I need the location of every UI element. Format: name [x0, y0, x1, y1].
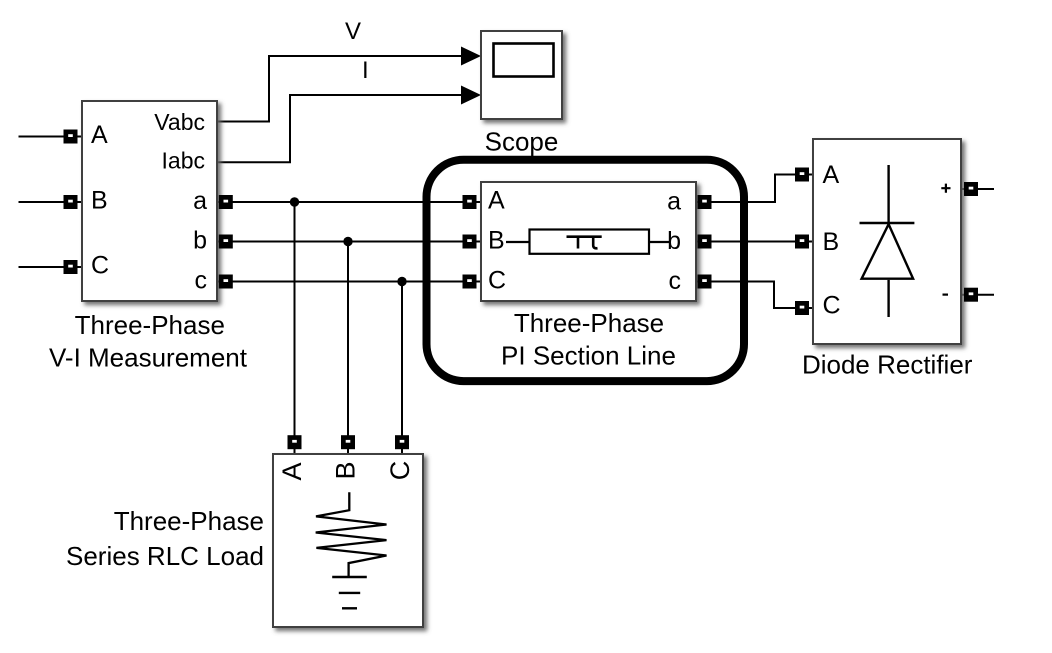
ground bar 2	[339, 592, 360, 594]
port square PI in C	[463, 275, 477, 289]
scope screen	[494, 44, 554, 77]
port square input A	[64, 130, 78, 144]
port square rectifier in A	[795, 168, 809, 182]
svg-text:Vabc: Vabc	[154, 109, 205, 135]
port square RLC top C	[395, 435, 409, 449]
svg-text:A: A	[277, 462, 307, 480]
svg-text:C: C	[91, 252, 109, 280]
wire I (Iabc to Scope)	[217, 95, 463, 162]
diode triangle	[862, 224, 914, 279]
wire rectifier + output	[961, 188, 994, 190]
wire input C stub	[19, 266, 83, 268]
diode cathode bar	[860, 222, 915, 224]
port square PI in A	[463, 195, 477, 209]
block Diode Rectifier	[813, 139, 961, 344]
port square RLC top B	[341, 435, 355, 449]
svg-text:Three-Phase: Three-Phase	[75, 310, 225, 340]
svg-text:I: I	[362, 57, 369, 84]
svg-text:B: B	[488, 226, 505, 254]
block Three-Phase V-I Measurement	[82, 101, 217, 301]
svg-text:V-I Measurement: V-I Measurement	[49, 342, 248, 372]
svg-text:Three-Phase: Three-Phase	[514, 308, 664, 338]
svg-text:a: a	[667, 188, 681, 216]
svg-text:Iabc: Iabc	[162, 148, 205, 174]
arrowhead V into Scope	[461, 47, 481, 66]
pi glyph right leg	[593, 237, 597, 249]
wire a (V-I out a to PI in A)	[217, 201, 481, 203]
port square rectifier out +	[964, 182, 978, 196]
block Scope	[481, 31, 562, 119]
port square PI out a	[698, 195, 712, 209]
pi glyph left leg	[577, 237, 580, 249]
svg-text:A: A	[823, 161, 840, 189]
svg-text:b: b	[193, 226, 207, 254]
svg-text:B: B	[823, 228, 840, 256]
label +	[941, 184, 950, 193]
svg-text:C: C	[385, 461, 415, 481]
highlight box (thick rounded rectangle) around PI Section Line	[427, 160, 745, 381]
port square V-I out a	[219, 195, 233, 209]
svg-text:C: C	[488, 266, 506, 294]
pi glyph bar	[567, 235, 602, 238]
junction dot b	[343, 237, 352, 246]
port square rectifier out -	[964, 288, 978, 302]
svg-text:c: c	[195, 266, 208, 294]
block Three-Phase PI Section Line	[481, 182, 696, 301]
wire PI out a to Rectifier A	[696, 175, 813, 203]
svg-text:A: A	[488, 186, 505, 214]
pi element stub left	[506, 241, 530, 243]
svg-text:A: A	[91, 121, 108, 149]
svg-text:B: B	[91, 187, 108, 215]
wire rectifier - output	[961, 294, 994, 296]
port square rectifier in C	[795, 301, 809, 315]
ground bar 3	[342, 607, 357, 609]
svg-text:Series RLC Load: Series RLC Load	[66, 541, 264, 571]
wire input B stub	[19, 201, 83, 203]
svg-text:V: V	[345, 18, 361, 45]
wire drop b to RLC load port B	[347, 242, 349, 455]
port square PI in B	[463, 235, 477, 249]
svg-text:Diode Rectifier: Diode Rectifier	[802, 350, 973, 380]
port square rectifier in B	[795, 235, 809, 249]
wire input A stub	[19, 136, 83, 138]
svg-text:c: c	[669, 267, 682, 295]
svg-text:PI Section Line: PI Section Line	[501, 341, 676, 371]
port square input B	[64, 195, 78, 209]
resistor zigzag symbol	[316, 492, 387, 576]
port square input C	[64, 260, 78, 274]
junction dot a	[290, 197, 299, 206]
port square RLC top A	[288, 435, 302, 449]
pi element stub right	[649, 241, 670, 243]
wire V (Vabc to Scope)	[217, 56, 463, 122]
svg-text:Scope: Scope	[485, 127, 559, 157]
diode vertical line	[887, 165, 889, 317]
svg-text:b: b	[667, 227, 681, 255]
label -	[943, 294, 949, 296]
wire PI out c to Rectifier C	[696, 282, 813, 309]
port square PI out c	[698, 275, 712, 289]
wire b (V-I out b to PI in B)	[217, 241, 481, 243]
pi element box	[530, 230, 650, 254]
svg-text:Three-Phase: Three-Phase	[114, 506, 264, 536]
junction dot c	[397, 277, 406, 286]
svg-text:B: B	[331, 461, 361, 479]
port square V-I out b	[219, 235, 233, 249]
svg-text:C: C	[823, 292, 841, 320]
wire c (V-I out c to PI in C)	[217, 281, 481, 283]
wire PI out b to Rectifier B	[696, 241, 813, 243]
port square V-I out c	[219, 275, 233, 289]
svg-text:a: a	[193, 187, 207, 215]
block Three-Phase Series RLC Load	[273, 454, 423, 627]
wire drop c to RLC load port C	[401, 282, 403, 455]
port square PI out b	[698, 235, 712, 249]
ground bar 1	[332, 576, 367, 578]
arrowhead I into Scope	[461, 86, 481, 105]
wire drop a to RLC load port A	[294, 202, 296, 454]
